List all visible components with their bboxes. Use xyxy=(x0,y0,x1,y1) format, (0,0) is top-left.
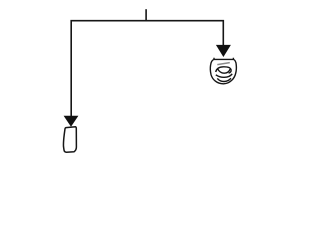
lamp inner reflector arch with curled end xyxy=(216,67,231,73)
lamp inner reflector smile xyxy=(218,69,231,73)
lamp lens arc 2 xyxy=(216,74,232,78)
lamp top highlight line xyxy=(217,63,230,65)
lamp body outline with rim ears xyxy=(210,58,236,84)
arrow to left bulb xyxy=(64,116,79,127)
lamp lens arc 3 xyxy=(217,78,231,81)
right component: lamp/horn unit xyxy=(210,58,236,84)
wire harness main run (left drop, top run, right drop) xyxy=(71,21,223,116)
left component: wedge bulb / socket outline xyxy=(63,127,76,152)
wire stub tick to upper connector xyxy=(145,9,147,21)
arrow to right lamp unit xyxy=(216,45,231,57)
